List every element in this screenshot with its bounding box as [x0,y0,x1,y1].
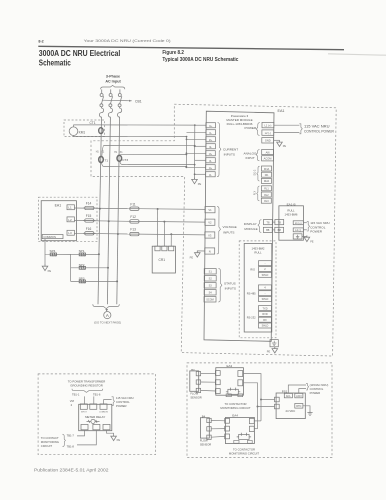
bus junction nodes [185,124,195,175]
DI group 2 brace [257,186,260,201]
svg-text:8-2: 8-2 [38,40,43,44]
svg-text:INPUT: INPUT [81,411,88,413]
wire voltage sense row 2 [74,220,129,223]
RS-485 port terminals [259,285,272,302]
svg-text:RS-485: RS-485 [247,292,256,296]
master module bottom GND terminal [270,340,278,347]
EA3 right terminals [238,371,243,386]
control power feed wire [104,400,112,404]
EA3 monitor note [220,402,251,410]
svg-text:KM1: KM1 [79,130,86,134]
wire PS1 acl up [288,385,306,393]
svg-text:MODULE: MODULE [244,227,257,231]
svg-text:TB1-6: TB1-6 [93,392,101,396]
control power bracket [299,124,302,134]
wire power L1 [274,124,300,126]
svg-text:F14: F14 [86,202,92,206]
DI group 1 brace [257,166,260,181]
wire voltage sense row 1 [74,207,129,210]
meter relay coil symbol [87,419,100,423]
svg-text:I4+: I4+ [209,167,213,170]
EA4 bottom terminals [234,440,239,443]
master module U1 outline [204,111,274,341]
wire T8 link [272,221,275,223]
wire CT1 secondary to module row1 [100,124,195,126]
svg-text:V1: V1 [208,208,212,212]
wire EA4 out 2 [254,428,257,430]
terminal L1 [67,205,74,210]
svg-text:T8: T8 [266,220,270,224]
node SP1 phase A [98,253,100,255]
EA1-B terminal GND [293,234,302,239]
contactor monitor dashed enclosure [187,363,332,458]
svg-text:PE: PE [267,350,271,354]
svg-text:MONITORING CIRCUIT: MONITORING CIRCUIT [229,452,260,456]
wire SP3 row [71,280,118,282]
svg-text:I1+: I1+ [209,125,213,128]
digital input terminals group 2 [261,186,271,203]
svg-text:ACOM: ACOM [264,157,272,161]
svg-text:RL2: RL2 [264,194,269,197]
wire phase B vertical [107,118,110,304]
down brace under note [72,389,103,393]
svg-text:GND: GND [265,139,271,143]
svg-text:I3-: I3- [209,160,212,163]
wire phase A vertical [98,118,102,304]
svg-text:B8: B8 [266,228,270,232]
header rule [38,46,344,49]
stubs into current input terminals [186,125,206,174]
wire PS1 acn up [299,389,306,394]
svg-text:(GO TO NEXT PAGE): (GO TO NEXT PAGE) [94,320,121,324]
wire TB1-6 drop [93,396,95,404]
current transformer CT3 [117,155,122,161]
wire CT1 secondary to module row2 [100,135,187,137]
svg-text:L2 (-): L2 (-) [295,229,301,232]
wire bottom terminal 3 to ground [107,430,114,435]
circuit breaker CB1 pole 1 [100,89,104,106]
svg-text:SP1: SP1 [79,249,85,253]
svg-text:MONITORING CIRCUIT: MONITORING CIRCUIT [220,406,251,410]
KM1 CT1 dashed enclosure [64,120,105,137]
input brace [101,85,125,89]
wire CT3 secondary bottom [120,162,195,165]
rectifier CR1 [152,246,175,273]
svg-text:POWER: POWER [245,126,257,130]
svg-text:COMMON: COMMON [43,235,56,239]
wires B4 to EA4 [211,420,225,437]
display module brace [258,220,261,233]
svg-text:EA1: EA1 [278,109,285,113]
wire N terminal to ground [197,250,204,252]
node A page connector [104,312,111,319]
svg-text:115 VAC NRU: 115 VAC NRU [304,124,330,128]
CB1 tie bar and label [102,99,132,102]
svg-text:I3+: I3+ [209,153,213,156]
svg-text:CT3: CT3 [122,158,128,162]
PS1 control power bracket [306,384,309,390]
svg-text:CURRENT: CURRENT [223,147,238,151]
current input distribution bus 2 [194,125,196,179]
node CR1 drop 3 [170,233,172,235]
exit brace to next page [93,304,120,308]
svg-text:RL3: RL3 [264,200,269,203]
svg-text:H1: H1 [96,151,100,154]
EA1-B terminal B8 [275,227,284,232]
EA1 main dashed enclosure with notch [91,104,336,356]
svg-text:L1 (+): L1 (+) [264,124,271,128]
CT1 secondary loop wires [74,125,100,127]
POWER terminals L1 L2 GND [262,122,274,143]
svg-text:SHLD: SHLD [262,274,269,277]
breaker coil phase 2 [108,107,112,118]
EA1-B terminal L2 [293,228,303,232]
svg-text:FLOW: FLOW [190,392,198,396]
svg-text:X1: X1 [120,151,124,154]
node phase B tap [108,220,110,222]
svg-text:2: 2 [71,403,73,407]
svg-text:POWER: POWER [116,404,127,408]
ground at EA1-B [304,235,310,241]
comms module box [244,244,272,333]
comms option dashed enclosure [239,241,276,338]
wire SP1 row [56,253,99,255]
svg-text:CIRCUIT: CIRCUIT [41,444,53,448]
breaker coil phase 1 [99,107,103,118]
ground at PS1 [307,410,312,415]
VOLTAGE INPUT terminals [205,207,215,254]
svg-text:RL1: RL1 [264,188,269,191]
EA4 internal contact symbol [237,433,251,440]
svg-text:T8: T8 [278,220,282,224]
meter relay K1 box [79,404,112,430]
svg-text:S2: S2 [209,278,213,281]
ground PE current inputs [192,178,198,184]
ground PE at common [42,264,48,270]
svg-text:CB1: CB1 [135,99,142,103]
terminal L3 [67,230,74,235]
wire T1 secondary top [102,145,195,156]
svg-text:SP4: SP4 [50,249,56,253]
wire EA1-B L2 lead [303,229,307,231]
EA3 bottom terminals [226,394,231,397]
svg-text:RXD: RXD [262,313,267,316]
wire phase C vertical [117,118,120,304]
CR1 terminal 2 [162,246,167,251]
svg-text:TB1-1: TB1-1 [72,392,80,396]
svg-text:CONTROL POWER: CONTROL POWER [304,130,335,134]
svg-text:Schematic: Schematic [39,59,71,68]
EA3 internal contact symbol [226,388,240,395]
wire EA1-B L1 lead [303,222,307,224]
svg-text:COMMON: COMMON [99,411,108,413]
svg-text:Your 3000A DC NRU (Current Cod: Your 3000A DC NRU (Current Code 0) [84,38,172,43]
RS-232 port terminals [259,306,272,328]
svg-text:TXD: TXD [263,307,268,310]
svg-text:AI6: AI6 [266,150,270,154]
svg-text:RX: RX [263,319,267,322]
svg-text:RS-232: RS-232 [247,316,256,320]
svg-text:TB1-7: TB1-7 [67,434,75,438]
wire CT3 secondary top [120,153,186,156]
current inputs brace [217,123,221,177]
svg-text:SENSOR: SENSOR [200,442,211,446]
wire EA3 out 2 [243,383,258,407]
EA4 right terminals [249,418,254,431]
svg-text:L1: L1 [68,206,72,210]
svg-text:I1-: I1- [209,132,212,135]
master module name [226,114,252,126]
svg-text:F12: F12 [130,215,136,219]
svg-text:N: N [209,249,211,253]
svg-text:SHLD: SHLD [262,298,269,301]
svg-text:DI2A: DI2A [264,180,270,183]
wire bus down to EA4 [260,400,262,421]
svg-text:METER RELAY: METER RELAY [85,415,105,419]
svg-text:I4-: I4- [209,174,212,177]
svg-text:PE: PE [117,438,121,442]
svg-text:INPUTS: INPUTS [225,287,236,291]
wire B8 link [272,229,275,231]
svg-text:CR1: CR1 [159,258,166,262]
EA1-B terminal L1 [293,221,303,225]
svg-text:I2-: I2- [209,146,212,149]
contact monitoring note [41,436,59,448]
EA1-B control power bracket [307,221,310,231]
PS1 terminal ACL [284,393,292,397]
svg-text:INPUT: INPUT [246,156,255,160]
wire CR1 feeds [157,209,171,246]
svg-text:PE: PE [283,145,287,148]
svg-text:PE: PE [310,241,314,244]
exit arrow [105,309,107,312]
wires B3 to EA3 [201,374,216,391]
wire EA1-B gnd lead [302,235,307,237]
svg-text:INPUTS: INPUTS [224,152,235,156]
svg-text:4: 4 [264,287,266,290]
wire bottom terminal 1 to TB1-7 [77,430,85,436]
svg-text:DISPLAY: DISPLAY [244,222,257,226]
3-Phase AC Input label [105,75,121,84]
svg-text:PE: PE [190,256,194,260]
ground PE below module [272,347,278,353]
node SP2 phase B [107,267,109,269]
svg-text:DI1A: DI1A [264,168,270,171]
terminal L2 [67,217,74,222]
svg-text:I2+: I2+ [209,139,213,142]
SP bus vertical [70,254,72,281]
EA4 monitor note [229,448,260,456]
top terminals of meter relay [80,404,107,409]
svg-text:B8: B8 [278,228,282,232]
svg-text:FLOW: FLOW [200,439,208,443]
svg-text:3-Phase: 3-Phase [106,75,120,79]
svg-text:L2: L2 [68,218,72,222]
CR1 terminal 3 [169,246,174,251]
node CR1 drop 1 [157,208,159,210]
ground PE meter relay [111,434,117,440]
svg-text:DI1-2: DI1-2 [253,169,256,176]
voltage inputs brace [217,206,221,254]
svg-text:VM: VM [70,399,75,403]
digital input terminals group 1 [261,166,271,183]
PS1 terminal ACN [295,393,303,397]
CR1 terminal 1 [155,246,160,251]
wire bus to PS1 in 1 [261,399,275,401]
svg-text:-: - [265,262,266,265]
PS1 left terminals [275,397,280,402]
svg-text:F13: F13 [130,228,136,232]
suppressor EA1 box [41,201,76,241]
svg-text:F11: F11 [130,202,135,206]
svg-text:F15: F15 [86,214,92,218]
svg-text:VOLTAGE: VOLTAGE [223,225,237,229]
svg-text:V2: V2 [208,221,212,225]
ground at power GND [277,140,283,146]
wire voltage sense row 3 [74,232,129,235]
svg-text:SCOM: SCOM [206,299,214,302]
wire bus to PS1 in 2 [258,406,275,408]
svg-text:H1: H1 [114,151,118,154]
node bus junction 2 [257,406,259,408]
wire PS1 output to ground [303,406,310,410]
scan artifact line [328,54,386,55]
meter relay dashed enclosure [38,374,155,455]
bottom terminals of meter relay [81,424,110,429]
relay KM1 [69,127,78,136]
status inputs brace [218,268,222,302]
svg-text:A: A [106,313,109,318]
svg-text:S4: S4 [209,292,213,295]
EA4 left terminals [225,418,230,438]
svg-text:EA1: EA1 [55,203,62,207]
svg-text:RULL: RULL [254,250,262,254]
svg-text:EA3: EA3 [227,364,233,368]
circuit breaker CB1 pole 3 [118,89,122,106]
wire bottom terminal 2 to TB1-8 [77,430,96,445]
brace contact monitoring [62,434,65,446]
svg-text:-: - [265,292,266,295]
svg-text:GROUNDING RESISTOR: GROUNDING RESISTOR [70,384,102,388]
svg-text:ACL: ACL [286,395,291,398]
svg-text:RIO: RIO [250,267,255,271]
grounding resistor note [68,380,106,388]
PS1 output terminal [295,404,303,409]
current input terminals [206,123,216,177]
node SP3 phase C [116,280,118,282]
wire COMMON drop [45,239,71,255]
svg-text:L2 (-): L2 (-) [265,131,271,135]
wire EA4 out 1 [254,420,261,422]
breaker coil phase 3 [118,107,122,118]
EA3 left terminals [215,371,220,394]
ANALOG INPUT terminals [262,149,274,161]
svg-text:AC Input: AC Input [105,80,121,84]
analog input brace [256,150,259,161]
wire TB1-1 drop [84,396,86,404]
node phase A tap [99,208,101,210]
circuit breaker CB1 pole 2 [109,89,113,106]
svg-text:POWER: POWER [310,391,321,395]
svg-text:24 VDC: 24 VDC [286,409,296,413]
wire EA3 out 1 [243,374,261,400]
svg-text:TB1-8: TB1-8 [67,444,75,448]
EA1-B terminal T8 [275,220,284,225]
meter relay control power bracket [112,397,115,406]
svg-text:Figure 8.2: Figure 8.2 [162,50,184,56]
svg-text:Typical 3000A DC NRU Schematic: Typical 3000A DC NRU Schematic [162,57,238,63]
svg-text:S3: S3 [209,285,213,288]
svg-text:INPUTS: INPUTS [223,230,234,234]
current transformer T1 [99,157,104,163]
svg-text:ACN: ACN [296,395,301,398]
wire SP2 row [71,267,109,269]
node phase C tap [117,233,119,235]
svg-text:S1: S1 [209,271,213,274]
ground PE at N [195,251,201,257]
wire gnd stub [274,139,280,141]
RIO port terminals [259,261,272,278]
svg-text:POWER: POWER [310,230,322,234]
svg-text:3000A DC NRU Electrical: 3000A DC NRU Electrical [39,49,121,58]
node bus junction 1 [260,399,262,401]
svg-text:L1 (+): L1 (+) [295,222,302,225]
svg-text:SENSOR: SENSOR [190,395,201,399]
current input distribution bus 1 [185,137,187,167]
svg-text:F16: F16 [86,227,92,231]
wire T1 secondary bottom [102,163,187,167]
current transformer CT1 [99,128,103,134]
power brace [256,123,260,136]
svg-text:RLY: RLY [253,190,256,195]
svg-text:DI1: DI1 [265,174,269,177]
svg-text:2: 2 [264,268,266,271]
surge suppressor assembly dashed enclosure [39,197,98,242]
wire power L2 [274,132,300,134]
svg-text:L3: L3 [68,231,72,235]
svg-text:RTN: RTN [296,405,301,408]
DISPLAY MODULE terminals T8 B8 [263,220,272,233]
svg-text:1453-BM6: 1453-BM6 [285,212,298,216]
svg-text:Publication 2384E-5.01 April 2: Publication 2384E-5.01 April 2002 [34,468,109,473]
node CR1 drop 2 [163,221,165,223]
svg-text:SHLD: SHLD [262,325,269,328]
svg-text:T1: T1 [105,158,109,162]
svg-text:PE: PE [198,182,202,186]
STATUS INPUT terminals [204,269,216,302]
svg-text:PE: PE [48,269,52,273]
svg-text:V3: V3 [208,233,212,237]
terminal COMMON [42,235,63,239]
svg-text:STATUS: STATUS [224,281,236,285]
